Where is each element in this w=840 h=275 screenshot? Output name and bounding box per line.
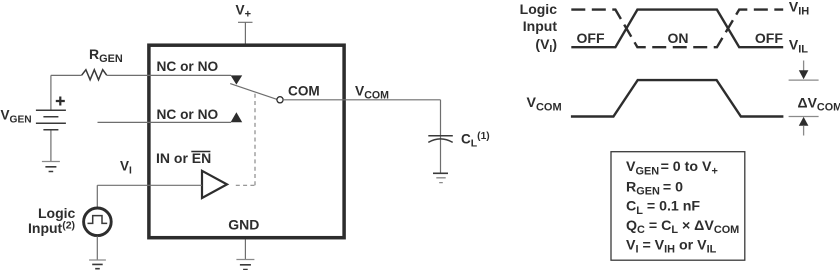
ground CL xyxy=(433,173,448,182)
plus sign xyxy=(56,97,65,106)
svg-text:QC = CL × ΔVCOM: QC = CL × ΔVCOM xyxy=(626,218,739,236)
svg-text:RGEN: RGEN xyxy=(89,46,123,65)
ground logic input xyxy=(89,260,106,269)
svg-text:VCOM: VCOM xyxy=(527,95,562,113)
DUT box xyxy=(149,45,344,238)
ground GND pin xyxy=(236,260,254,270)
svg-text:ΔVCOM: ΔVCOM xyxy=(798,95,840,114)
capacitor CL xyxy=(428,136,453,143)
logic waveform dashed xyxy=(571,10,783,48)
dashed control line xyxy=(236,184,255,186)
wire battery top xyxy=(50,75,52,109)
svg-text:OFF: OFF xyxy=(577,30,605,46)
wire VI input xyxy=(97,185,202,207)
svg-text:Logic: Logic xyxy=(520,1,558,17)
svg-text:Input(2): Input(2) xyxy=(28,220,75,237)
switch lever wire xyxy=(230,84,277,100)
svg-text:OFF: OFF xyxy=(755,30,783,46)
VCOM waveform xyxy=(571,80,784,116)
svg-text:(VI): (VI) xyxy=(535,36,557,55)
wire below pulse source xyxy=(96,236,98,259)
V+ pin wire xyxy=(238,22,253,43)
svg-text:VGEN: VGEN xyxy=(1,108,32,126)
svg-text:RGEN= 0: RGEN= 0 xyxy=(626,179,683,197)
svg-text:VIL: VIL xyxy=(789,36,808,55)
svg-text:COM: COM xyxy=(288,84,320,99)
svg-text:NC or NO: NC or NO xyxy=(157,107,219,122)
svg-text:VI = VIH or VIL: VI = VIH or VIL xyxy=(626,237,717,255)
resistor RGEN xyxy=(82,70,107,80)
svg-text:IN or EN: IN or EN xyxy=(156,150,211,166)
buffer driver xyxy=(202,171,227,198)
battery VGEN xyxy=(36,110,66,130)
switch NC contact arrow xyxy=(231,75,243,84)
pulse source circle xyxy=(84,208,112,236)
svg-text:NC or NO: NC or NO xyxy=(157,59,219,74)
wire COM output xyxy=(283,100,440,173)
conditions box xyxy=(611,152,745,261)
svg-text:CL = 0.1 nF: CL = 0.1 nF xyxy=(626,199,700,217)
arrow down xyxy=(803,61,805,71)
pulse symbol xyxy=(88,216,108,224)
ground VGEN xyxy=(42,162,60,172)
wire node NC/NO 1 xyxy=(51,74,231,76)
wire node NC/NO 2 xyxy=(98,121,232,123)
EN overline xyxy=(191,151,210,153)
svg-text:ON: ON xyxy=(668,30,689,46)
svg-text:VI: VI xyxy=(120,158,132,176)
svg-text:CL(1): CL(1) xyxy=(461,131,490,150)
GND pin wire xyxy=(244,240,246,260)
arrow up xyxy=(799,117,809,126)
svg-text:Logic: Logic xyxy=(38,205,76,221)
wire battery bottom xyxy=(50,131,52,162)
tick VCOM low xyxy=(789,116,819,118)
svg-text:V+: V+ xyxy=(236,2,252,20)
COM pole circle xyxy=(277,97,283,103)
switch NO contact arrow xyxy=(231,112,243,122)
svg-text:GND: GND xyxy=(228,217,259,233)
svg-text:VCOM: VCOM xyxy=(355,84,389,102)
svg-text:Input: Input xyxy=(523,18,558,34)
svg-text:VGEN= 0 to V+: VGEN= 0 to V+ xyxy=(626,159,718,177)
tick VCOM high xyxy=(789,79,819,81)
logic waveform solid xyxy=(571,10,783,48)
svg-text:VIH: VIH xyxy=(789,0,809,17)
